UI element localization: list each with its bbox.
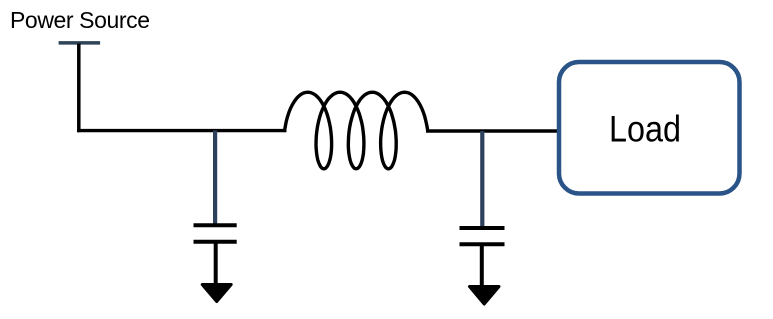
inductor L1 — [285, 92, 428, 169]
capacitor C2 top plate — [460, 226, 505, 230]
label: Power Source — [10, 7, 150, 33]
wire: C2 to ground — [480, 244, 484, 287]
label: Load — [609, 108, 681, 149]
wire: left rail to inductor — [77, 129, 286, 132]
wire: capacitor C1 stub — [213, 131, 217, 225]
ground symbol G1 — [202, 285, 231, 302]
wire: power source drop — [77, 44, 81, 133]
ground symbol G2 — [470, 287, 500, 305]
svg-text:Load: Load — [609, 108, 681, 149]
wire: capacitor C2 stub — [480, 131, 484, 228]
capacitor C2 bottom plate — [460, 242, 505, 246]
wire: C1 to ground — [214, 242, 218, 284]
capacitor C1 bottom plate — [194, 240, 237, 244]
svg-text:Power Source: Power Source — [10, 7, 150, 33]
wire: right rail to load — [426, 129, 561, 133]
capacitor C1 top plate — [194, 223, 237, 227]
power source terminal bar — [59, 41, 101, 45]
load block U1 — [559, 62, 740, 194]
